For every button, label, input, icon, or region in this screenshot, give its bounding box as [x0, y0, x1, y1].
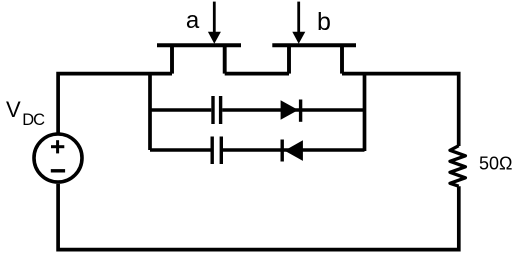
source VDC circle — [34, 134, 82, 182]
capacitor C1 — [213, 96, 221, 124]
control arrow a — [208, 2, 221, 44]
capacitor C2 — [212, 137, 221, 165]
wire: left rail lower segment, bottom rail, right rail lower segment — [58, 184, 459, 250]
wire: top-right horizontal from transistor b right leg to right rail — [342, 74, 459, 146]
transistor Qa (gate bar and two legs) — [157, 45, 241, 73]
wire: top-left horizontal from left rail to transistor a left leg — [58, 74, 172, 134]
plus sign — [51, 140, 64, 153]
diode D1 (pointing right) — [281, 100, 301, 122]
diode D2 (pointing left) — [282, 140, 303, 162]
wire: bottom branch right segment — [223, 148, 365, 151]
svg-text:50Ω: 50Ω — [479, 154, 512, 174]
resistor R 50ohm zigzag — [450, 146, 465, 187]
wire: inner box left vertical — [148, 74, 152, 150]
svg-text:b: b — [317, 8, 331, 36]
transistor Qb (gate bar and two legs) — [272, 45, 356, 73]
wire: middle horizontal joining transistor a and transistor b — [225, 72, 289, 76]
svg-text:DC: DC — [22, 111, 45, 129]
wire: inner box right vertical — [363, 74, 367, 151]
minus sign — [51, 169, 65, 172]
wire: top branch right segment — [222, 108, 364, 111]
wire: top branch left segment — [150, 108, 211, 111]
wire: bottom branch left segment — [150, 148, 211, 151]
svg-text:a: a — [186, 7, 200, 34]
control arrow b — [292, 2, 305, 44]
svg-text:V: V — [6, 97, 21, 122]
